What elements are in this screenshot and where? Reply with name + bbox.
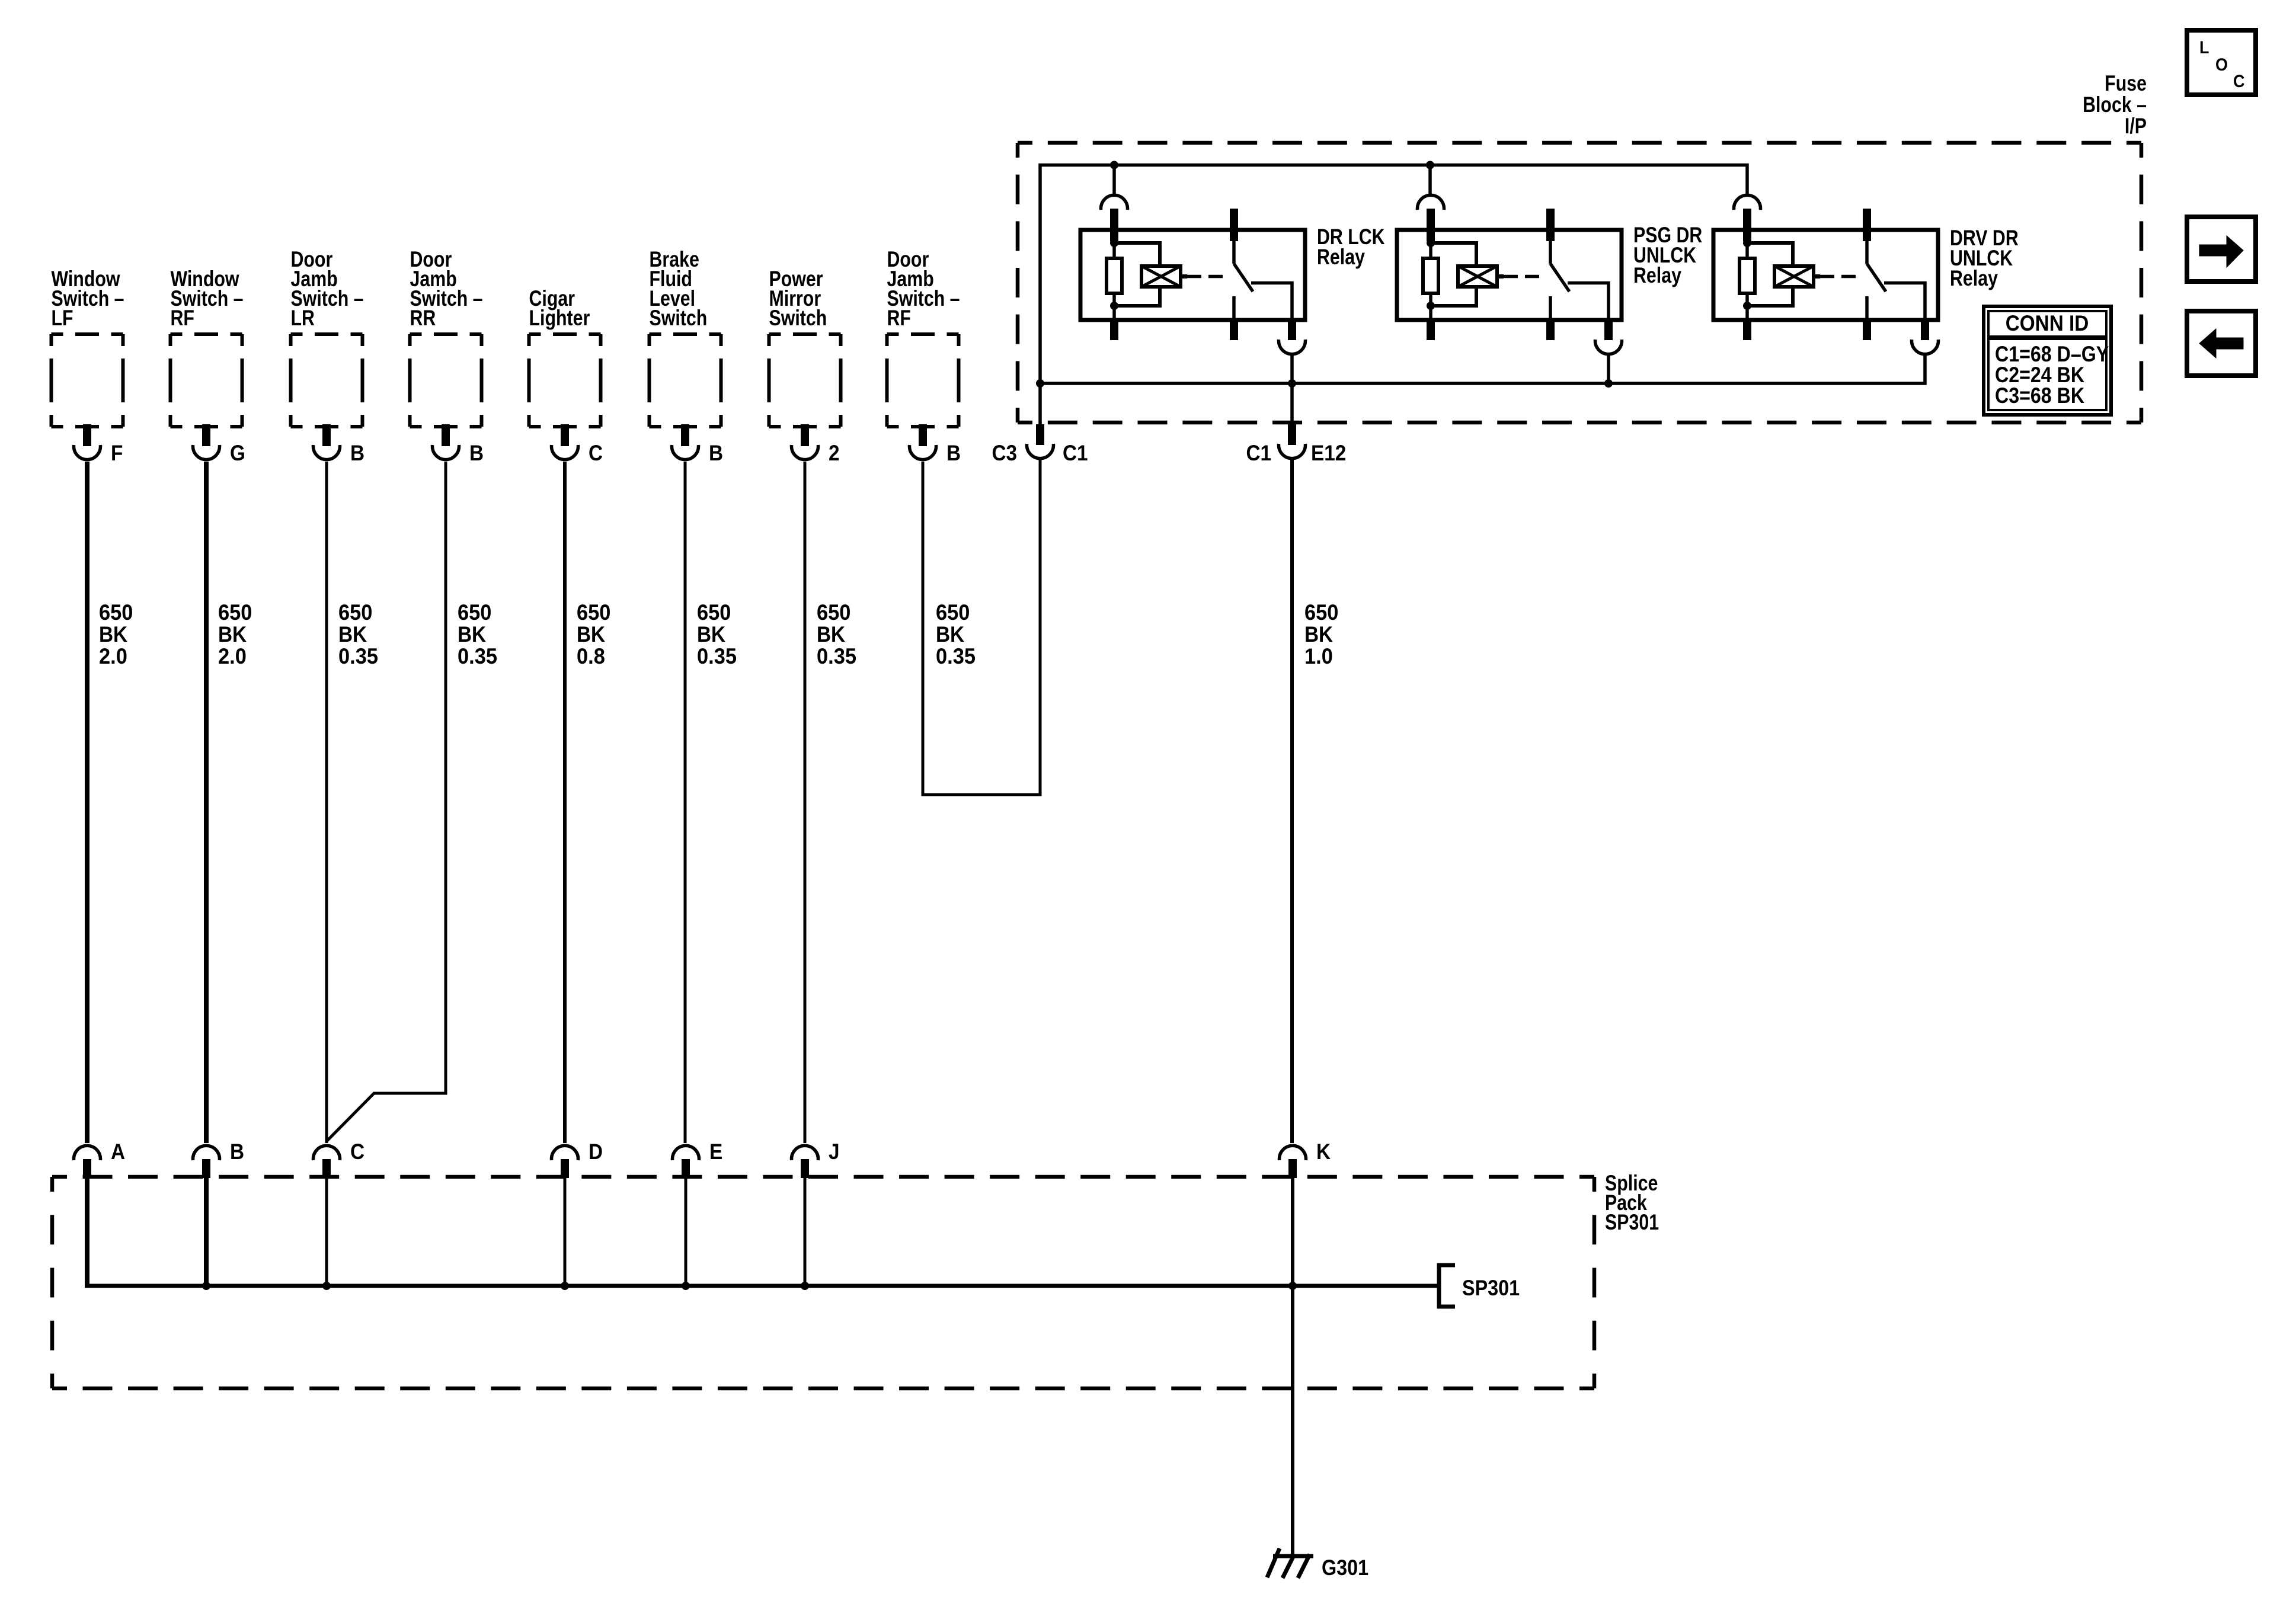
wire: C into splice bus — [325, 1178, 328, 1286]
wire label 650 BK 2.0 — [218, 600, 252, 668]
junction node splice bus / wire B — [202, 1282, 210, 1290]
svg-text:Switch: Switch — [650, 306, 708, 331]
svg-text:650: 650 — [1304, 600, 1338, 625]
svg-text:Relay: Relay — [1317, 245, 1365, 270]
wire: B into splice bus — [204, 1178, 209, 1286]
svg-text:B: B — [946, 441, 961, 465]
component box: Window Switch RF — [171, 267, 244, 427]
svg-text:C: C — [589, 441, 603, 465]
component box: Brake Fluid Level Switch — [650, 247, 721, 427]
component box: Power Mirror Switch — [769, 267, 841, 427]
connector C on splice pack — [314, 1140, 365, 1178]
svg-text:0.8: 0.8 — [577, 644, 605, 668]
svg-text:LR: LR — [291, 306, 315, 331]
svg-text:D: D — [589, 1140, 603, 1164]
label: Fuse Block - I/P — [2083, 71, 2147, 139]
wire label 650 BK 0.35 — [697, 600, 737, 668]
svg-text:L: L — [2199, 38, 2209, 58]
svg-text:RF: RF — [171, 306, 194, 331]
connector pin B of Door Jamb Switch LR — [314, 424, 365, 465]
component box: Cigar Lighter — [529, 286, 601, 427]
wire: Door Jamb Switch RF pin B down, right, up to fuse block C1 — [923, 462, 1040, 795]
connector C1/E12 on fuse block — [1246, 424, 1346, 465]
connector pin B of Door Jamb Switch RF — [910, 424, 961, 465]
svg-text:Relay: Relay — [1633, 263, 1681, 288]
junction node on bus (PSG DR UNLCK relay feed) — [1426, 161, 1434, 169]
wire: PSG DR UNLCK relay output down to lower bus — [1607, 355, 1610, 383]
fuse block I/P dashed border — [1018, 141, 2141, 145]
svg-text:SP301: SP301 — [1605, 1210, 1659, 1235]
connector pin 2 of Power Mirror Switch — [791, 424, 839, 465]
svg-text:I/P: I/P — [2125, 114, 2147, 139]
svg-text:RR: RR — [410, 306, 436, 331]
wire label 650 BK 0.35 — [936, 600, 976, 668]
wire label 650 BK 2.0 — [99, 600, 133, 668]
svg-text:E12: E12 — [1311, 441, 1346, 465]
svg-text:F: F — [111, 441, 123, 465]
relay K1: DR LCK Relay — [1080, 195, 1385, 354]
svg-text:650: 650 — [697, 600, 731, 625]
wire label 650 BK 0.35 — [458, 600, 497, 668]
svg-text:SP301: SP301 — [1462, 1276, 1520, 1300]
svg-text:650: 650 — [99, 600, 133, 625]
wire from connector C down to splice pack — [563, 462, 567, 1143]
junction node splice bus / wire D — [561, 1282, 569, 1290]
junction node splice bus / wire K — [1288, 1282, 1297, 1290]
svg-text:2.0: 2.0 — [218, 644, 247, 668]
component box: Door Jamb Switch RR — [410, 247, 483, 427]
junction node lower bus / left rail — [1036, 379, 1044, 388]
component box: Window Switch LF — [52, 267, 124, 427]
wire label 650 BK 1.0 — [1304, 600, 1338, 668]
wire: lower bus inside fuse block — [1040, 355, 1925, 383]
svg-text:CONN ID: CONN ID — [2006, 311, 2089, 335]
wire: A into splice bus — [85, 1178, 89, 1288]
wire from connector G down to splice pack — [204, 462, 209, 1143]
svg-text:650: 650 — [458, 600, 491, 625]
wire from connector 2 down to splice pack — [804, 462, 807, 1143]
svg-text:0.35: 0.35 — [697, 644, 737, 668]
svg-text:BK: BK — [218, 622, 247, 646]
wire: Door Jamb Switch RR pin B down, jog left into splice connector C — [327, 462, 446, 1141]
ground G301 — [1267, 1548, 1368, 1580]
wire: left rail down to C1 connector — [1038, 383, 1042, 424]
connector J on splice pack — [792, 1140, 840, 1178]
connector E on splice pack — [673, 1140, 723, 1178]
wire: fuse block C1 down (joins Door Jamb Switch RF wire) — [1039, 460, 1042, 795]
svg-text:650: 650 — [936, 600, 970, 625]
svg-text:B: B — [709, 441, 723, 465]
svg-text:J: J — [829, 1140, 840, 1164]
component box: Door Jamb Switch RF — [887, 247, 960, 427]
svg-text:BK: BK — [338, 622, 367, 646]
wire: J into splice bus — [804, 1178, 807, 1286]
svg-text:1.0: 1.0 — [1304, 644, 1333, 668]
wire: top bus and left rail inside fuse block — [1040, 165, 1747, 384]
svg-text:BK: BK — [1304, 622, 1334, 646]
junction node lower bus / PSG DR UNLCK relay output — [1604, 379, 1613, 388]
arrow box: continue left — [2187, 311, 2256, 376]
svg-text:C: C — [2233, 72, 2244, 92]
CONN ID table — [1984, 306, 2111, 415]
connector D on splice pack — [552, 1140, 603, 1178]
wire: bus drop to DR LCK relay pin — [1112, 165, 1116, 196]
wire: K into splice bus — [1291, 1178, 1294, 1554]
svg-text:650: 650 — [577, 600, 610, 625]
svg-text:2: 2 — [829, 441, 840, 465]
svg-text:E: E — [709, 1140, 722, 1164]
junction node splice bus / wire E — [682, 1282, 690, 1290]
svg-text:C: C — [350, 1140, 364, 1164]
connector pin G of Window Switch RF — [193, 424, 245, 465]
wire: bus drop to PSG DR UNLCK relay pin — [1428, 165, 1432, 196]
wire label 650 BK 0.35 — [817, 600, 856, 668]
junction node on bus (DR LCK relay feed) — [1110, 161, 1118, 169]
LOC reference box — [2187, 30, 2256, 95]
svg-text:K: K — [1316, 1140, 1331, 1164]
svg-text:0.35: 0.35 — [458, 644, 497, 668]
component box: Door Jamb Switch LR — [291, 247, 364, 427]
svg-text:0.35: 0.35 — [817, 644, 856, 668]
svg-text:650: 650 — [218, 600, 252, 625]
svg-text:650: 650 — [338, 600, 372, 625]
wire: DR LCK relay output down to E12 — [1290, 355, 1294, 383]
svg-text:O: O — [2215, 55, 2228, 75]
svg-text:650: 650 — [817, 600, 850, 625]
splice terminal bracket SP301 — [1439, 1265, 1455, 1307]
svg-text:C1: C1 — [1246, 441, 1271, 465]
connector A on splice pack — [74, 1140, 126, 1178]
svg-text:BK: BK — [817, 622, 846, 646]
relay K3: DRV DR UNLCK Relay — [1713, 195, 2019, 354]
svg-text:B: B — [350, 441, 364, 465]
connector pin B of Door Jamb Switch RR — [433, 424, 484, 465]
wire label 650 BK 0.35 — [338, 600, 378, 668]
svg-text:BK: BK — [936, 622, 965, 646]
svg-text:LF: LF — [52, 306, 73, 331]
svg-text:B: B — [230, 1140, 244, 1164]
connector pin F of Window Switch LF — [74, 424, 123, 465]
svg-text:0.35: 0.35 — [936, 644, 976, 668]
wire: D into splice bus — [564, 1178, 567, 1286]
wire label 650 BK 0.8 — [577, 600, 610, 668]
svg-text:C3=68 BK: C3=68 BK — [1995, 384, 2084, 408]
connector B on splice pack — [193, 1140, 245, 1178]
svg-text:RF: RF — [887, 306, 911, 331]
label: Splice Pack SP301 — [1605, 1171, 1659, 1235]
wire: E into splice bus — [685, 1178, 687, 1286]
junction node lower bus / DR LCK relay output — [1288, 379, 1296, 388]
wire: splice bus SP301 — [85, 1284, 1437, 1288]
svg-text:0.35: 0.35 — [338, 644, 378, 668]
wire from connector F down to splice pack — [85, 462, 89, 1143]
connector pin C of Cigar Lighter — [552, 424, 603, 465]
wire from connector B down to splice pack — [325, 462, 328, 1143]
junction node splice bus / wire C — [322, 1282, 331, 1290]
svg-text:BK: BK — [697, 622, 726, 646]
svg-text:BK: BK — [577, 622, 606, 646]
wire: E12 ground wire down to splice K — [1290, 460, 1294, 1143]
relay K2: PSG DR UNLCK Relay — [1397, 195, 1702, 354]
arrow box: continue right — [2187, 217, 2256, 281]
connector C3/C1 on fuse block — [992, 424, 1088, 465]
svg-text:Lighter: Lighter — [529, 306, 590, 331]
junction node splice bus / wire J — [801, 1282, 809, 1290]
svg-text:G: G — [230, 441, 245, 465]
wire from connector B down to splice pack — [684, 462, 687, 1143]
svg-text:G301: G301 — [1322, 1556, 1368, 1580]
svg-text:Relay: Relay — [1950, 266, 1998, 291]
connector pin B of Brake Fluid Level Switch — [672, 424, 724, 465]
svg-text:C3: C3 — [992, 441, 1017, 465]
svg-text:2.0: 2.0 — [99, 644, 127, 668]
svg-text:C1: C1 — [1063, 441, 1088, 465]
svg-text:A: A — [111, 1140, 125, 1164]
svg-text:BK: BK — [99, 622, 128, 646]
svg-text:B: B — [469, 441, 484, 465]
svg-text:BK: BK — [458, 622, 487, 646]
connector K on splice pack — [1280, 1140, 1331, 1178]
splice pack SP301 dashed border — [52, 1175, 1594, 1179]
svg-text:Switch: Switch — [769, 306, 827, 331]
